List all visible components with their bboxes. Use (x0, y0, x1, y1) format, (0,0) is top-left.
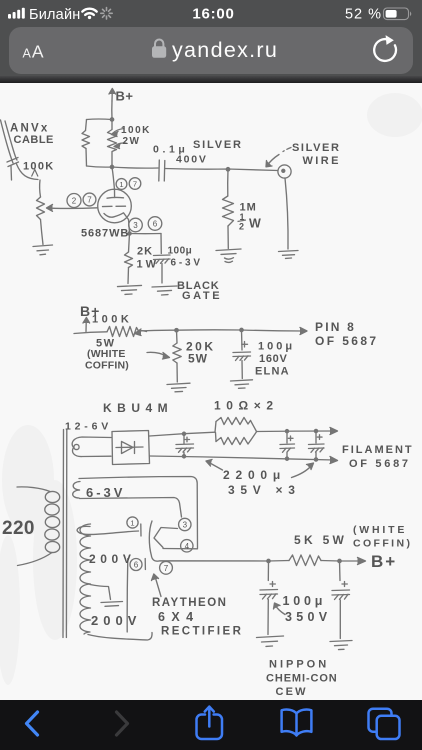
cathode arc V1 (104, 213, 129, 220)
svg-text:B+: B+ (371, 552, 397, 571)
svg-text:12-6V: 12-6V (65, 421, 112, 433)
center tap wire (90, 585, 111, 600)
scan shading (0, 93, 422, 685)
rail to pin8 arrow (242, 328, 308, 335)
cathode output wire (152, 557, 269, 562)
ground 20K (167, 383, 190, 392)
6X4 cathode structure (154, 528, 198, 549)
share icon (197, 707, 223, 739)
cathode node wires (129, 220, 162, 254)
svg-text:5W: 5W (188, 352, 208, 366)
svg-text:2200μ: 2200μ (223, 468, 286, 482)
loading spinner (101, 8, 112, 19)
heater loop top wire (79, 477, 198, 549)
wire B+ to junction (111, 101, 113, 119)
svg-text:6-3V: 6-3V (86, 485, 125, 500)
junction plate node (110, 165, 113, 168)
svg-text:Билайн: Билайн (29, 7, 80, 23)
svg-text:6-3V: 6-3V (171, 258, 203, 269)
svg-text:SILVER: SILVER (292, 142, 341, 154)
svg-text:100μ: 100μ (168, 246, 193, 257)
wire HV bottom to plate 6 (88, 559, 152, 641)
bottom rail arrow (330, 457, 338, 464)
resistor 1M grid leak (223, 169, 234, 248)
header bottom shade (0, 76, 422, 83)
svg-text:5K 5W: 5K 5W (294, 533, 347, 547)
ANVx cable (1, 120, 19, 180)
junction 1M (226, 168, 229, 171)
svg-text:200V: 200V (89, 552, 135, 566)
wiper arrow input pot (47, 205, 55, 212)
svg-text:GATE: GATE (182, 290, 222, 302)
svg-text:160V: 160V (259, 353, 288, 365)
svg-text:SILVER: SILVER (193, 139, 243, 151)
bookmarks icon (282, 709, 312, 735)
svg-text:RECTIFIER: RECTIFIER (161, 626, 243, 638)
svg-text:(WHITE: (WHITE (353, 524, 407, 536)
plate bar V1 (107, 190, 124, 198)
svg-text:RAYTHEON: RAYTHEON (152, 597, 227, 609)
wire to 5K (269, 560, 290, 563)
pin 6 V1 cathode (148, 217, 162, 231)
junction cathode (128, 232, 131, 235)
svg-text:100K: 100K (121, 125, 151, 136)
tabs icon (369, 709, 400, 739)
tube edge squiggle (149, 521, 152, 556)
wire B+ top feed to plate (112, 167, 115, 190)
svg-text:W: W (249, 217, 261, 231)
capacitor 100u 160V ELNA (233, 330, 251, 379)
svg-text:5687WB: 5687WB (81, 228, 129, 240)
ground 2K (118, 285, 142, 294)
capacitor 100u 350V left (260, 561, 278, 635)
silver wire leader arrow (266, 148, 291, 167)
diode symbol in bridge (116, 442, 143, 454)
svg-text:CEW: CEW (276, 686, 308, 698)
wire 5K to B+ arrow (321, 558, 366, 565)
wifi icon (82, 9, 96, 19)
wire grid (54, 207, 98, 210)
junction dots cap2 (285, 430, 288, 461)
pin 2 V1 grid (67, 194, 81, 208)
svg-text:CABLE: CABLE (14, 134, 54, 146)
arrow into 100K 5W (135, 329, 147, 336)
svg-text:2K: 2K (137, 246, 153, 258)
svg-text:220: 220 (2, 518, 35, 539)
wire cable to pot (17, 164, 41, 197)
svg-text:COFFIN): COFFIN) (353, 538, 412, 550)
svg-text:PIN 8: PIN 8 (315, 320, 356, 334)
primary winding 220 (17, 487, 60, 566)
filament top rail (150, 432, 216, 436)
junction filter cap right (338, 559, 341, 562)
junction filter cap left (267, 559, 270, 562)
svg-text:35V ×3: 35V ×3 (228, 483, 301, 497)
rail to cap junction (177, 329, 242, 331)
junction pot top (110, 118, 113, 121)
B+ rail stage2 (74, 332, 107, 334)
svg-text:7: 7 (164, 564, 169, 573)
svg-text:FILAMENT: FILAMENT (342, 444, 414, 456)
svg-text:100K: 100K (23, 161, 55, 173)
leader arrow RAYTHEON label (152, 574, 162, 597)
pin 3 6X4 heater (179, 518, 191, 530)
svg-text:7: 7 (87, 196, 92, 205)
status + url bar background (0, 0, 422, 77)
url pill (9, 27, 413, 74)
reload icon (374, 35, 396, 61)
svg-text:6X4: 6X4 (158, 610, 199, 624)
svg-text:ELNA: ELNA (255, 366, 290, 378)
resistor 2K cathode (125, 252, 133, 268)
pin 7 V1 top (129, 178, 141, 190)
svg-text:100μ: 100μ (283, 594, 327, 608)
bottom toolbar background (0, 700, 422, 750)
svg-text:2: 2 (239, 222, 244, 232)
junction dots cap3 (314, 429, 317, 461)
svg-text:4: 4 (185, 542, 190, 551)
pin 7 6X4 cathode (160, 561, 173, 574)
svg-text:350V: 350V (285, 610, 331, 624)
svg-text:1W: 1W (137, 259, 160, 271)
svg-text:CHEMI-CON: CHEMI-CON (266, 673, 338, 685)
svg-text:WIRE: WIRE (303, 155, 341, 167)
svg-text:OF 5687: OF 5687 (315, 334, 379, 348)
capacitor 100u 6-3V cathode bypass (154, 255, 171, 283)
svg-text:2W: 2W (123, 136, 141, 147)
pin 4 6X4 heater (181, 540, 193, 552)
output node circle (278, 165, 291, 178)
wire to coupling cap (112, 167, 158, 168)
battery icon (384, 8, 412, 20)
svg-text:400V: 400V (176, 154, 208, 166)
heater winding 6-3V (73, 482, 80, 499)
svg-text:1: 1 (130, 518, 134, 527)
svg-text:100μ: 100μ (258, 341, 295, 353)
ground cap right (330, 641, 352, 650)
junction dots cap1 (182, 432, 185, 458)
ground 1M (216, 249, 241, 262)
pin 7 V1 grid (83, 193, 96, 206)
resistor 100K 2W main (108, 120, 117, 168)
capacitor 2200u no1 (176, 434, 194, 457)
arrow from coffin label (147, 352, 170, 359)
signal bars icon (8, 8, 25, 19)
filament top rail right (257, 428, 338, 435)
svg-text:yandex.ru: yandex.ru (172, 38, 278, 62)
ground input pot (33, 245, 53, 255)
HV secondary winding (80, 524, 91, 634)
plate bar pin6 (144, 559, 146, 570)
heater loop bottom wire (80, 498, 182, 518)
pin 3 V1 cathode (129, 218, 143, 232)
svg-text:(WHITE: (WHITE (87, 348, 126, 360)
wire node to ground (285, 178, 288, 249)
filament bottom rail (150, 456, 335, 460)
triode V1 5687WB envelope (98, 189, 132, 223)
svg-text:10Ω×2: 10Ω×2 (214, 399, 279, 413)
plate bar pin1 (140, 524, 142, 536)
svg-text:B+: B+ (116, 89, 134, 104)
svg-text:OF 5687: OF 5687 (349, 458, 411, 470)
svg-text:1: 1 (119, 180, 123, 189)
pin 1 V1 (116, 179, 127, 190)
wire pot to ground (41, 220, 44, 245)
svg-text:KBU4M: KBU4M (103, 401, 173, 415)
capacitor 0.1u coupling (159, 160, 165, 181)
svg-text:52 %: 52 % (345, 7, 382, 23)
B+ arrow stage2 (83, 318, 90, 332)
ground cathode cap (152, 286, 177, 295)
svg-text:NIPPON: NIPPON (269, 659, 329, 671)
pin 6 6X4 plate (130, 559, 142, 571)
bridge rectifier KBU4M (112, 431, 150, 465)
leader arrows 2200u label (206, 460, 314, 478)
wire 2K to ground (127, 268, 130, 284)
caret under 100K (32, 170, 39, 177)
pin 1 6X4 plate (127, 517, 138, 528)
ground ELNA (231, 380, 253, 389)
capacitor 2200u no3 (309, 431, 325, 460)
pot 100K 2W loop branch (82, 119, 112, 167)
svg-text:16:00: 16:00 (192, 6, 234, 23)
svg-text:2: 2 (72, 197, 77, 206)
resistor 5K 5W (289, 555, 321, 566)
wire cap to output node (165, 169, 278, 171)
grid dashes V1 (103, 205, 126, 207)
ground cap left (257, 636, 284, 646)
ground output node (279, 251, 299, 259)
potentiometer 100K input (37, 197, 45, 220)
forward chevron (117, 712, 128, 735)
svg-text:7: 7 (133, 179, 137, 188)
junction ELNA (240, 328, 243, 331)
svg-text:ANVx: ANVx (10, 123, 49, 135)
B+ arrow top (109, 89, 116, 102)
back chevron (27, 712, 38, 735)
capacitor 100u 350V right (332, 561, 350, 639)
lock icon (152, 40, 166, 58)
center tap ground (101, 602, 123, 607)
wire HV top to plate 1 (77, 526, 138, 534)
junction 20K (175, 329, 178, 332)
svg-text:6: 6 (153, 220, 158, 229)
wiper arrows 100K 2W (112, 129, 127, 149)
rail to 20K junction (139, 329, 177, 332)
resistor 100K 5W white coffin (107, 327, 139, 337)
transformer core (63, 430, 67, 638)
svg-text:200V: 200V (91, 613, 141, 628)
svg-text:3: 3 (183, 521, 188, 530)
secondary 12-6V winding (72, 437, 111, 457)
svg-text:COFFIN): COFFIN) (85, 360, 129, 372)
svg-text:3: 3 (133, 221, 138, 230)
leader arrow 350V label (274, 603, 286, 615)
capacitor 2200u no2 (280, 431, 295, 459)
resistors 10ohm x2 parallel (215, 418, 257, 445)
svg-text:100K: 100K (92, 314, 132, 326)
resistor 20K 5W (173, 330, 181, 382)
